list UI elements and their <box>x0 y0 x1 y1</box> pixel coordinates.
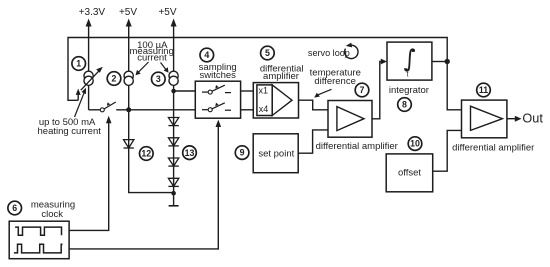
svg-text:set point: set point <box>258 148 294 159</box>
svg-text:servo loop: servo loop <box>308 48 350 58</box>
svg-text:clock: clock <box>41 209 63 220</box>
svg-text:+5V: +5V <box>158 7 176 18</box>
svg-text:integrator: integrator <box>389 85 429 96</box>
svg-text:2: 2 <box>112 74 117 84</box>
svg-text:heating current: heating current <box>38 126 102 137</box>
svg-text:amplifier: amplifier <box>263 71 299 82</box>
svg-text:difference: difference <box>314 76 356 87</box>
svg-text:1: 1 <box>76 59 81 69</box>
svg-text:switches: switches <box>199 70 236 81</box>
svg-text:12: 12 <box>141 149 151 159</box>
svg-text:x4: x4 <box>259 104 269 114</box>
svg-text:4: 4 <box>204 50 209 60</box>
svg-text:Out: Out <box>522 112 543 126</box>
svg-text:+5V: +5V <box>119 7 137 18</box>
svg-text:10: 10 <box>410 139 420 149</box>
svg-text:differential amplifier: differential amplifier <box>452 143 534 154</box>
svg-text:7: 7 <box>360 85 365 95</box>
svg-text:current: current <box>137 53 167 64</box>
svg-text:differential amplifier: differential amplifier <box>316 141 398 152</box>
svg-text:x1: x1 <box>259 86 269 96</box>
svg-text:13: 13 <box>185 148 195 158</box>
svg-text:8: 8 <box>402 100 407 110</box>
svg-text:11: 11 <box>479 85 488 95</box>
svg-text:6: 6 <box>12 203 17 213</box>
svg-text:9: 9 <box>240 148 245 158</box>
svg-text:offset: offset <box>398 167 421 178</box>
svg-text:+3.3V: +3.3V <box>79 7 106 18</box>
svg-text:5: 5 <box>265 48 270 58</box>
svg-text:t: t <box>407 72 409 79</box>
svg-text:3: 3 <box>156 74 161 84</box>
